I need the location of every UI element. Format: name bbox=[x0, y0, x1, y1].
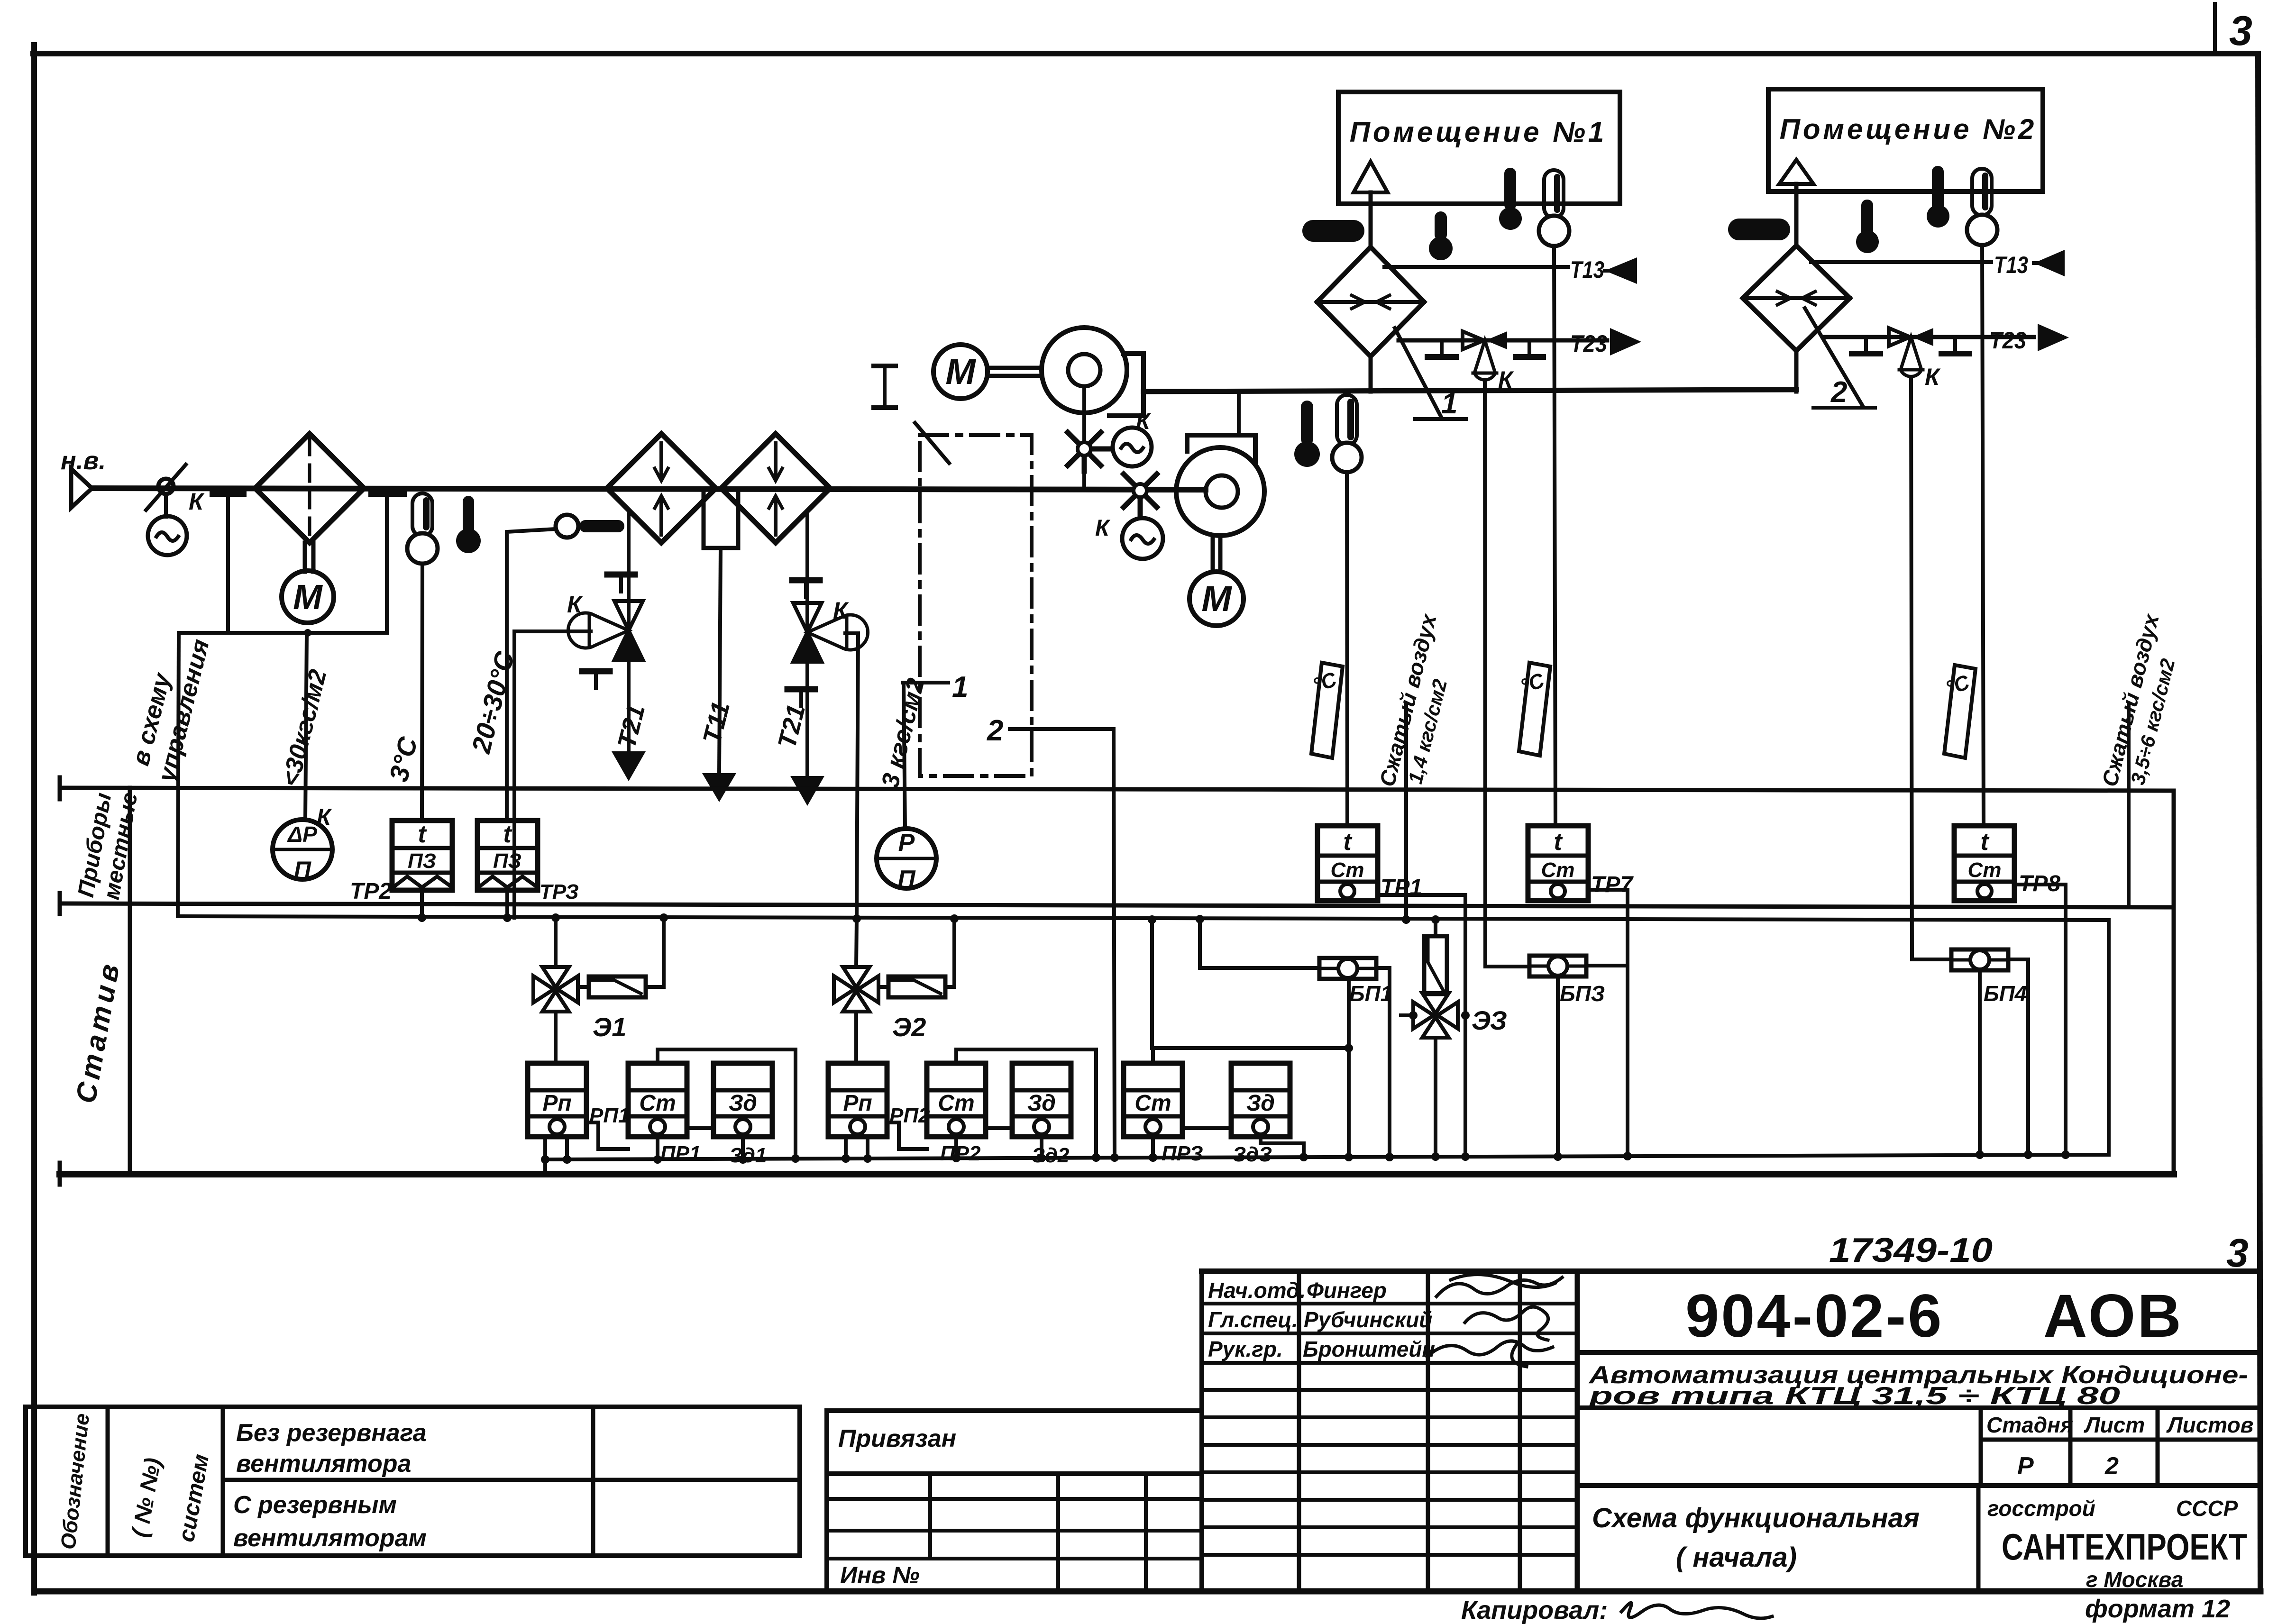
wire: TP1 sensor line down bbox=[1347, 472, 1347, 826]
svg-text:госстрой: госстрой bbox=[1987, 1496, 2095, 1521]
wire: БП1 bottom drop to bus bbox=[1347, 979, 1351, 1157]
wire: bracket Ст2-Зд2 to bus bbox=[956, 1049, 1096, 1157]
node: label ПРЗ bbox=[1162, 1142, 1203, 1165]
svg-text:ТР2: ТР2 bbox=[350, 879, 392, 904]
svg-text:Без резервнага: Без резервнага bbox=[236, 1419, 427, 1447]
svg-text:Ст: Ст bbox=[1968, 858, 2002, 882]
svg-text:формат 12: формат 12 bbox=[2085, 1595, 2230, 1623]
thermometer TP7 sensor (open bulb, room1) bbox=[1539, 170, 1569, 246]
node: label ТРЗ bbox=[540, 880, 579, 903]
wire: heater 2 valve actuator line to Э2 bbox=[845, 633, 858, 918]
node: T21 arrow (heater 2) bbox=[790, 776, 824, 806]
wire: ТР2 to bus bbox=[420, 890, 424, 918]
svg-text:ПРЗ: ПРЗ bbox=[1162, 1142, 1203, 1165]
svg-text:Нач.отд.: Нач.отд. bbox=[1208, 1278, 1306, 1303]
node: pipe tee left of valve (room1) bbox=[1427, 340, 1456, 357]
actuator ~ of damper 2 bbox=[1122, 518, 1163, 559]
node: pipe tee right of valve (room2) bbox=[1941, 337, 1969, 354]
wire: panel band right edge bbox=[2172, 791, 2176, 1174]
svg-text:К: К bbox=[317, 805, 332, 830]
node: section leader slash bbox=[915, 423, 949, 463]
instrument ТР3 (t/ПЗ regulator) bbox=[477, 821, 538, 890]
node: T21 arrow (heater 1) bbox=[612, 751, 646, 781]
node: sheet number tick top right bbox=[2213, 4, 2217, 54]
wire: Ст3 to Зд3 link bbox=[1182, 1126, 1231, 1130]
wire: fan 1 shaft (double line) bbox=[988, 368, 1041, 376]
svg-text:Ст: Ст bbox=[1541, 858, 1575, 882]
thermometer (black) room1 b bbox=[1499, 168, 1522, 230]
wire: БП4 right elbow to bus bbox=[2008, 959, 2028, 1154]
node: label Э1 bbox=[593, 1012, 626, 1042]
node: T11 sensor pocket between heaters bbox=[704, 490, 738, 548]
valve T23 (room2) bbox=[1889, 328, 1933, 346]
node: label ПР1 bbox=[660, 1142, 701, 1165]
svg-text:Ст: Ст bbox=[1134, 1091, 1171, 1116]
node: label Гл.спец. Рубчинский bbox=[1208, 1307, 1432, 1332]
wire: ТР8 output down to bus bbox=[2014, 885, 2066, 1154]
wire: T11 line down bbox=[719, 548, 721, 772]
wire: Э3 left arm stub bbox=[1401, 1013, 1413, 1017]
svg-text:ЗдЗ: ЗдЗ bbox=[1233, 1143, 1272, 1166]
wire: supply air line from fan 1 to rooms bbox=[1143, 390, 1796, 392]
node: label формат 12 bbox=[2085, 1595, 2230, 1623]
svg-text:Т13: Т13 bbox=[1570, 256, 1604, 283]
wire: БП4 bottom drop to bus bbox=[1978, 970, 1982, 1154]
wire: heater 1 return line T21 bbox=[627, 511, 631, 751]
svg-text:Помещение №2: Помещение №2 bbox=[1780, 113, 2037, 145]
node: label БП4 bbox=[1984, 981, 2027, 1006]
wire: sensor line to TP3 bbox=[507, 529, 556, 821]
pneumatic relay БП3 bbox=[1529, 956, 1586, 976]
node: label Инв № bbox=[840, 1562, 920, 1588]
svg-text:Рп: Рп bbox=[843, 1091, 872, 1116]
damper (star) on fan 1 suction bbox=[1068, 432, 1112, 471]
node: room box Помещение №2 bbox=[1768, 89, 2043, 192]
node: °С tag (ТР8 line) bbox=[1944, 665, 1976, 758]
actuator ~ of inlet damper K bbox=[148, 516, 187, 555]
node: systems table frame bbox=[26, 1407, 800, 1556]
node: T13 arrow (room2) bbox=[2034, 250, 2065, 276]
node: label К (heater 2 valve) bbox=[833, 597, 849, 624]
wire: panel band top line bbox=[60, 777, 2174, 799]
node: pipe tee below valve (heater 2) bbox=[787, 689, 815, 706]
node: label 1 (tap) bbox=[952, 671, 968, 703]
wire: tap 2 line down to stand bbox=[1010, 729, 1115, 1157]
svg-text:ПЗ: ПЗ bbox=[493, 849, 521, 873]
svg-text:вентилятора: вентилятора bbox=[236, 1450, 411, 1478]
node: label С резервным вентилятором bbox=[233, 1491, 427, 1552]
node: label Статив (rotated) bbox=[70, 958, 126, 1105]
node: fresh air inlet label н.в. bbox=[61, 447, 106, 475]
node: label Т11 (rotated) bbox=[697, 699, 735, 747]
node: label Т21 (heater 2, rotated) bbox=[772, 702, 811, 751]
wire: TP7 sensor line down bbox=[1554, 246, 1555, 826]
wire: Ст1 to Зд1 link bbox=[687, 1126, 713, 1130]
node: pipe tee above valve (heater 1) bbox=[607, 575, 635, 592]
node: title Автоматизация центральных кондиционеров bbox=[1588, 1361, 2248, 1410]
svg-text:Э1: Э1 bbox=[593, 1012, 626, 1042]
svg-text:Фингер: Фингер bbox=[1307, 1278, 1387, 1303]
wire: compressed air 1,4 кгс/см2 feed bbox=[1404, 703, 1408, 920]
svg-text:Т23: Т23 bbox=[1570, 330, 1607, 357]
wire: compressed air 3,5÷6 кгс/см2 feed bbox=[2127, 703, 2131, 906]
wire: filter right flange and actuator bracket right leg bbox=[372, 493, 403, 633]
node: label Т23 (room1) bbox=[1570, 330, 1607, 357]
thermometer TP8 sensor (open bulb, room2) bbox=[1967, 169, 1997, 245]
wire: bracket Ст3 to БП1 drop bbox=[1153, 1048, 1349, 1063]
wire: БП1 supply from bus bbox=[1200, 919, 1319, 968]
node: membrane actuator of room2 valve bbox=[1899, 337, 1923, 376]
instrument РП1 (Рп controller) bbox=[528, 1063, 586, 1137]
thermometer (black) room2 a bbox=[1856, 200, 1879, 253]
thermometer (black) after filter bbox=[456, 496, 481, 553]
node: label Т23 (room2) bbox=[1989, 327, 2026, 354]
heat exchanger diamond (room 2) bbox=[1743, 246, 1850, 351]
instrument ЗД2 (Зд setter) bbox=[1012, 1063, 1071, 1137]
wire: ТР7 output down to bus bbox=[1588, 890, 1628, 1155]
node: pipe tee left of valve (room2) bbox=[1852, 337, 1880, 354]
svg-text:К: К bbox=[1498, 366, 1514, 393]
instrument ΔР/П (filter pressure drop) bbox=[273, 820, 332, 879]
svg-text:Стадня: Стадня bbox=[1986, 1413, 2073, 1437]
node: label РП2 bbox=[889, 1104, 930, 1127]
svg-text:ПР1: ПР1 bbox=[660, 1142, 701, 1165]
instrument ЗД1 (Зд setter) bbox=[713, 1063, 772, 1137]
node: °С tag (ТР7 line) bbox=[1519, 663, 1550, 756]
svg-text:2: 2 bbox=[1830, 376, 1847, 409]
svg-text:Зд: Зд bbox=[1027, 1091, 1056, 1116]
svg-text:Привязан: Привязан bbox=[838, 1425, 956, 1452]
svg-text:Зд: Зд bbox=[729, 1091, 757, 1116]
node: callout 1 (system) bbox=[1395, 328, 1466, 419]
node: label К (room2 valve) bbox=[1925, 364, 1941, 390]
wire: РП1 to Ст1 jog bbox=[586, 1122, 628, 1149]
svg-text:вентиляторам: вентиляторам bbox=[233, 1524, 427, 1552]
node: label ЗдЗ bbox=[1233, 1143, 1272, 1166]
valve actuator Э2 bbox=[856, 919, 857, 967]
node: callout 2 (system) bbox=[1805, 308, 1875, 408]
svg-text:К: К bbox=[833, 597, 849, 624]
node: label Нач.отд. Фингер bbox=[1208, 1278, 1387, 1303]
svg-text:К: К bbox=[1925, 364, 1941, 390]
instrument РП2 (Рп controller) bbox=[828, 1063, 887, 1137]
svg-text:АОВ: АОВ bbox=[2043, 1282, 2183, 1350]
node: supply grille capsule (room 2) bbox=[1728, 219, 1790, 240]
node: sheet number 3 (bottom right) bbox=[2226, 1231, 2249, 1275]
node: label Копировал bbox=[1461, 1596, 1608, 1624]
pneumatic relay БП4 bbox=[1951, 949, 2008, 970]
wire: Э3 bottom drop to bus bbox=[1434, 1038, 1437, 1157]
node: label ПР2 bbox=[940, 1142, 981, 1165]
svg-text:ров типа КТЦ 31,5 ÷: ров типа КТЦ 31,5 ÷ КТЦ 80 bbox=[1588, 1382, 2120, 1410]
node: junction dots on stand bus bbox=[541, 1150, 2070, 1164]
heater cell 2 (diamond with arrows) bbox=[721, 434, 830, 543]
svg-text:БП1: БП1 bbox=[1349, 981, 1392, 1006]
svg-text:Листов: Листов bbox=[2166, 1413, 2253, 1437]
node: T13 arrow (room1) bbox=[1605, 257, 1637, 284]
wire: T13 line (room2) bbox=[1811, 260, 1991, 264]
node: section mark I bbox=[874, 366, 896, 408]
wire: Ст3/Зд3 stubs to bus bbox=[1153, 1137, 1304, 1157]
svg-text:ЭЗ: ЭЗ bbox=[1472, 1005, 1507, 1035]
svg-text:Зд2: Зд2 bbox=[1032, 1144, 1070, 1167]
filter cell (diamond with dashed axis) bbox=[255, 434, 364, 543]
wire: room1 valve K line down to Э3/БП3 bbox=[1485, 382, 1529, 967]
node: sheet number 3 (top right) bbox=[2229, 7, 2252, 54]
wire: Ст2 to Зд2 link bbox=[986, 1126, 1012, 1130]
node: label Т13 (room1) bbox=[1570, 256, 1604, 283]
node: label Т13 (room2) bbox=[1994, 252, 2028, 278]
svg-text:Зд: Зд bbox=[1246, 1091, 1275, 1116]
instrument ПР1 (Ст station) bbox=[628, 1063, 687, 1137]
wire: T23 line (room2) bbox=[1825, 335, 2034, 339]
wire: room 1 diamond down to supply line bbox=[1369, 356, 1373, 392]
svg-text:Рп: Рп bbox=[542, 1091, 571, 1116]
node: label Т21 (heater 1, rotated) bbox=[612, 702, 650, 751]
svg-text:г Москва: г Москва bbox=[2086, 1567, 2183, 1592]
svg-text:1: 1 bbox=[952, 671, 968, 703]
node: label Схема функциональная (начала) bbox=[1592, 1503, 1920, 1573]
svg-text:Схема функциональная: Схема функциональная bbox=[1592, 1503, 1920, 1533]
node: label Обозначение (rotated) bbox=[56, 1412, 94, 1551]
node: exhaust triangle (room 2) bbox=[1779, 160, 1813, 184]
node: label (№ №) СИСТЕМ (rotated) bbox=[128, 1452, 214, 1544]
node: label ТР7 bbox=[1591, 872, 1634, 897]
svg-text:Капировал:: Капировал: bbox=[1461, 1596, 1608, 1624]
damper (star) on recirculation duct bbox=[1124, 474, 1157, 518]
node: label ЭЗ bbox=[1472, 1005, 1507, 1035]
svg-text:ΔР: ΔР bbox=[287, 822, 317, 847]
node: labels Стадия Лист Листов bbox=[1986, 1413, 2253, 1480]
wire: tap 1 bracket bbox=[903, 681, 948, 684]
heat exchanger diamond (room 1) bbox=[1317, 247, 1424, 356]
node: T23 arrow (room2) bbox=[2038, 324, 2069, 351]
wire: line to control circuit (в схему управления) bbox=[178, 633, 179, 916]
wire: БП1 right elbow to bus bbox=[1376, 968, 1390, 1157]
pneumatic relay БП1 bbox=[1319, 958, 1376, 979]
wire: panel band middle line bbox=[60, 893, 2174, 914]
node: label 3 кгс/см2 (rotated) bbox=[876, 675, 930, 791]
node: membrane actuator of room1 valve bbox=[1473, 340, 1497, 380]
svg-text:П: П bbox=[294, 857, 311, 883]
node: label РП1 bbox=[589, 1104, 630, 1127]
actuator ~ of fan1 suction damper bbox=[1113, 428, 1152, 466]
svg-text:К: К bbox=[1136, 409, 1152, 434]
svg-text:Зд1: Зд1 bbox=[729, 1144, 767, 1167]
wire: tap 1 line down to Р/П bbox=[904, 683, 905, 829]
fan 2 (return fan scroll) bbox=[1176, 435, 1264, 536]
svg-text:Ст: Ст bbox=[938, 1091, 974, 1116]
node: label Э2 bbox=[892, 1012, 926, 1042]
wire: Э2 positioner to bus bbox=[878, 919, 954, 987]
valve actuator Э3 bbox=[1434, 920, 1437, 936]
node: junction dot Э3 right arm bbox=[1345, 1011, 1470, 1052]
svg-text:2: 2 bbox=[2104, 1452, 2119, 1480]
svg-text:П: П bbox=[897, 866, 916, 893]
instrument ТР7 (t/Ст regulator) bbox=[1528, 826, 1588, 901]
node: label Помещение №1 bbox=[1350, 116, 1607, 148]
svg-text:Т23: Т23 bbox=[1989, 327, 2026, 354]
node: inventory number 17349-10 bbox=[1829, 1232, 1993, 1269]
node: label Зд1 bbox=[729, 1144, 767, 1167]
node: label К (room1 valve) bbox=[1498, 366, 1514, 393]
wire: actuator bracket bottom bbox=[179, 629, 387, 637]
wire: ТР1 output to Э3 arm and bus bbox=[1378, 895, 1465, 1156]
motor M of filter drive bbox=[282, 571, 334, 623]
wire: main air duct line bbox=[92, 488, 1206, 490]
wire: Э1 to РП1 bbox=[554, 1012, 558, 1063]
svg-text:н.в.: н.в. bbox=[61, 447, 106, 475]
svg-text:К: К bbox=[567, 591, 583, 618]
valve T23 (room1) bbox=[1463, 331, 1507, 349]
wire: fan 1 suction line down bbox=[1082, 386, 1086, 489]
valve actuator Э1 bbox=[554, 918, 558, 967]
node: label 3°С (rotated) bbox=[384, 733, 423, 785]
node: spray chamber (dash-dot box) bbox=[920, 435, 1032, 776]
node: air inlet triangle bbox=[71, 469, 92, 508]
node: label ТР2 bbox=[350, 879, 392, 904]
svg-text:Р: Р bbox=[2017, 1452, 2034, 1480]
svg-text:17349-10: 17349-10 bbox=[1829, 1232, 1993, 1269]
wire: pressure drop signal line to ΔР/П bbox=[305, 633, 307, 820]
node: copyist signature bbox=[1621, 1603, 1772, 1618]
svg-text:3: 3 bbox=[2226, 1231, 2249, 1275]
node: label К (damper 2) bbox=[1095, 516, 1111, 541]
svg-text:К: К bbox=[189, 488, 205, 515]
svg-text:( начала): ( начала) bbox=[1676, 1542, 1797, 1573]
svg-text:Рук.гр.: Рук.гр. bbox=[1208, 1337, 1283, 1361]
instrument ТР1 (t/Ст regulator) bbox=[1317, 826, 1378, 901]
wire: РП2 to Ст2 jog bbox=[887, 1122, 927, 1149]
node: label Рук.гр. Бронштейн bbox=[1208, 1337, 1435, 1361]
wire: TP8 sensor line down bbox=[1982, 245, 1984, 826]
motor M of fan 1 bbox=[933, 345, 988, 399]
node: pipe tee right of valve (room1) bbox=[1516, 340, 1543, 357]
svg-text:t: t bbox=[503, 821, 512, 848]
svg-text:Р: Р bbox=[898, 829, 915, 857]
node: label БП3 bbox=[1560, 981, 1605, 1006]
wire: room 1 connection triangle to heat exchanger bbox=[1369, 192, 1373, 247]
node: label Приборы местные (rotated) bbox=[73, 790, 143, 902]
wire: filter left flange and actuator bracket left leg bbox=[213, 493, 243, 633]
svg-text:Инв №: Инв № bbox=[840, 1562, 920, 1588]
node: pipe tee below valve (heater 1) bbox=[582, 671, 610, 688]
svg-text:С резервным: С резервным bbox=[233, 1491, 397, 1519]
wire: РП2/Ст2/Зд2 stubs to bus bbox=[846, 1137, 1042, 1158]
node: label ТР1 bbox=[1381, 875, 1422, 900]
node: T23 arrow (room1) bbox=[1610, 328, 1641, 356]
wire: БП3 right elbow bbox=[1586, 964, 1628, 967]
node: label 2 (tap) bbox=[987, 714, 1003, 747]
wire: room 2 diamond down to supply line bbox=[1794, 351, 1799, 392]
wire: fan 2 discharge up to supply line bbox=[1237, 391, 1241, 435]
wire: T23 line (room1) bbox=[1399, 338, 1607, 343]
svg-text:Лист: Лист bbox=[2084, 1413, 2145, 1437]
wire: room2 valve K line down to БП4 bbox=[1911, 379, 1951, 959]
svg-text:Помещение №1: Помещение №1 bbox=[1350, 116, 1607, 148]
node: label <30кгс/м2 (rotated) bbox=[276, 666, 332, 789]
node: label K (inlet damper) bbox=[189, 488, 205, 515]
node: label К (fan1 damper) bbox=[1136, 409, 1152, 434]
node: signature squiggles bbox=[1427, 1275, 1562, 1367]
thermometer (black) room1 a bbox=[1429, 211, 1453, 260]
node: label К (ΔР/П) bbox=[317, 805, 332, 830]
svg-text:ПЗ: ПЗ bbox=[408, 849, 436, 873]
thermometer (black) room2 b bbox=[1927, 166, 1949, 228]
svg-text:t: t bbox=[1980, 828, 1990, 856]
node: signature table grid bbox=[1202, 1271, 1577, 1591]
node: pipe tee above valve (heater 2) bbox=[792, 580, 820, 597]
svg-text:1: 1 bbox=[1441, 387, 1457, 420]
sensor circle+capsule (to TP3) bbox=[556, 515, 624, 538]
svg-text:САНТЕХПРОЕКТ: САНТЕХПРОЕКТ bbox=[2002, 1526, 2247, 1568]
heater cell 1 (diamond with arrows) bbox=[607, 434, 716, 543]
wire: T13 line (room1) bbox=[1384, 265, 1568, 269]
svg-text:904-02-6: 904-02-6 bbox=[1685, 1282, 1943, 1350]
node: Привязан table frame bbox=[827, 1411, 1202, 1591]
instrument ПР3 (Ст station) bbox=[1124, 1063, 1182, 1137]
node: exhaust triangle (room 1) bbox=[1354, 162, 1388, 192]
instrument ТР8 (t/Ст regulator) bbox=[1954, 826, 2014, 901]
node: °С tag (ТР1 line) bbox=[1311, 663, 1343, 758]
node: Э1 positioner rectangle bbox=[589, 976, 646, 997]
node: label Зд2 bbox=[1032, 1144, 1070, 1167]
svg-text:ПР2: ПР2 bbox=[940, 1142, 981, 1165]
svg-text:М: М bbox=[293, 577, 323, 617]
wire: БП3 bottom drop to bus bbox=[1556, 976, 1560, 1156]
node: label К (heater 1 valve) bbox=[567, 591, 583, 618]
svg-text:М: М bbox=[1201, 579, 1232, 619]
svg-text:БП4: БП4 bbox=[1984, 981, 2027, 1006]
svg-text:БПЗ: БПЗ bbox=[1560, 981, 1605, 1006]
svg-text:2: 2 bbox=[987, 714, 1003, 747]
fan 1 (supply fan scroll) bbox=[1042, 328, 1143, 416]
wire: Э1 positioner to bus bbox=[578, 918, 664, 987]
node: room box Помещение №1 bbox=[1338, 92, 1620, 204]
node: Э2 positioner rectangle bbox=[888, 976, 945, 997]
svg-text:t: t bbox=[418, 821, 427, 848]
instrument Р/П (pressure, local) bbox=[877, 829, 936, 888]
damper K on inlet duct bbox=[146, 465, 186, 517]
node: label Госстрой СССР САНТЕХПРОЕКТ г Москва bbox=[1987, 1496, 2247, 1592]
svg-text:Т13: Т13 bbox=[1994, 252, 2028, 278]
svg-text:Гл.спец.: Гл.спец. bbox=[1208, 1307, 1298, 1332]
svg-text:Ст: Ст bbox=[1331, 858, 1364, 882]
node: T11 arrow (filled, down) bbox=[702, 773, 736, 802]
svg-text:t: t bbox=[1554, 828, 1563, 856]
wire: fan 2 shaft (double line) bbox=[1213, 536, 1220, 572]
node: document number 904-02-6 АОВ bbox=[1685, 1282, 2183, 1350]
node: title block frame bbox=[1202, 1271, 2258, 1591]
wire: Ст1/Зд1 stubs to bus bbox=[658, 1137, 743, 1159]
wire: bus tap down to Ст3 bracket bbox=[1148, 915, 1156, 1048]
instrument ТР2 (t/ПЗ regulator) bbox=[392, 821, 452, 890]
node: label Без резервного вентилятора bbox=[236, 1419, 427, 1478]
node: label в схему управления (rotated) bbox=[127, 637, 215, 786]
instrument ПР2 (Ст station) bbox=[927, 1063, 986, 1137]
wire: 3°C sensor line down to TP2 bbox=[422, 564, 422, 821]
wire: bracket Ст1-Зд1 to bus bbox=[658, 1049, 796, 1156]
svg-text:t: t bbox=[1343, 828, 1353, 856]
wire: panel band bottom line (thick) bbox=[60, 1163, 2174, 1185]
instrument ЗД3 (Зд setter) bbox=[1231, 1063, 1290, 1137]
svg-text:3: 3 bbox=[2229, 7, 2252, 54]
svg-text:ТРЗ: ТРЗ bbox=[540, 880, 579, 903]
wire: ТР3 to bus bbox=[505, 890, 509, 918]
svg-text:Бронштейн: Бронштейн bbox=[1303, 1337, 1435, 1361]
svg-text:СССР: СССР bbox=[2176, 1496, 2238, 1521]
node: Э3 positioner rectangle (vertical) bbox=[1424, 936, 1447, 994]
